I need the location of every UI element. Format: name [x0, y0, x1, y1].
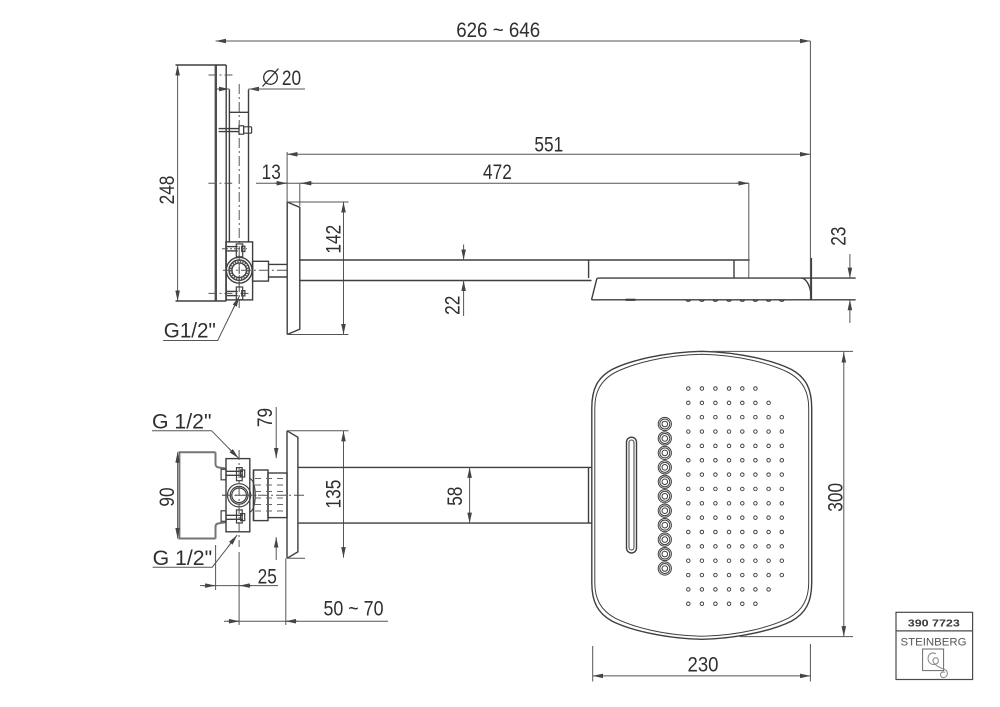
ext line escutcheon top: [287, 201, 348, 203]
svg-text:90: 90: [156, 487, 179, 506]
valve mid circle plan: [230, 486, 248, 504]
leader arrow G1/2 plan top: [229, 448, 239, 458]
bottom bolt nut: [242, 291, 245, 296]
valve thread ring: [230, 261, 248, 279]
svg-text:50 ~ 70: 50 ~ 70: [324, 598, 384, 621]
big nozzle 4 outer: [658, 461, 671, 474]
svg-text:22: 22: [441, 296, 464, 315]
nozzle bump 1: [686, 300, 691, 301]
screw shaft top line: [219, 128, 240, 130]
plan horizontal centerline: [222, 494, 304, 496]
logo box: [896, 612, 973, 679]
dim line d20: [249, 88, 306, 90]
ext line valve center down: [238, 552, 240, 625]
big nozzle 1 outer: [658, 417, 671, 430]
plan bottom bolt shaft2: [226, 518, 243, 520]
dim line 300: [843, 352, 845, 637]
ext line 300 top: [712, 350, 853, 352]
top bolt tab: [236, 244, 242, 257]
valve inner circle plan: [232, 488, 247, 503]
ext line rail edge down: [215, 545, 217, 590]
plan top bolt nut: [241, 470, 245, 477]
leader G1/2 plan bottom: [153, 538, 236, 568]
top bolt shaft line2: [227, 250, 238, 252]
ext line 472 right: [748, 183, 750, 278]
dim arrow d20 left: [217, 88, 229, 90]
cylinder bulge: [250, 478, 256, 513]
nozzle bump 8: [780, 300, 785, 302]
dim arrow 50~70 left: [227, 620, 239, 622]
escutcheon body side: [287, 202, 300, 335]
ext line escutcheon plan bottom: [287, 557, 305, 559]
wall plate top edge: [176, 64, 227, 66]
screw shaft bottom line: [219, 131, 240, 133]
centerline plate hole bottom: [209, 292, 250, 294]
stub centerline: [223, 269, 287, 271]
screw flange: [239, 126, 244, 134]
dim arrow 79 top: [275, 407, 277, 458]
svg-text:58: 58: [444, 487, 467, 506]
ext line 230 left: [592, 646, 594, 682]
thread line 5: [255, 504, 285, 506]
escutcheon face plan: [286, 431, 288, 559]
arm seam left: [588, 260, 590, 278]
cylinder left edge: [253, 470, 255, 521]
top bolt nut: [242, 246, 245, 251]
stub pipe bottom: [269, 276, 288, 278]
nozzle bump 3: [713, 300, 718, 302]
ext line escutcheon plan top: [287, 430, 349, 432]
valve vertical centerline: [238, 255, 240, 287]
dim arrow 22 top: [463, 245, 465, 261]
svg-text:23: 23: [827, 227, 850, 246]
slot outer: [627, 437, 637, 553]
svg-text:25: 25: [258, 566, 277, 589]
valve outer circle: [226, 257, 252, 283]
dim arrow 23 top: [849, 254, 851, 278]
svg-text:135: 135: [323, 480, 346, 509]
plan vertical centerline: [238, 450, 240, 547]
svg-text:472: 472: [483, 161, 512, 184]
arm plan top line: [298, 466, 592, 468]
pipe centerline: [238, 84, 240, 308]
bottom bolt tab: [236, 287, 242, 300]
big nozzle 9 outer: [658, 533, 671, 546]
thread line 1: [255, 478, 285, 480]
ext line wall face down: [285, 558, 287, 625]
plan top bolt shaft2: [226, 474, 243, 476]
thread line 2: [255, 484, 285, 486]
svg-text:G1/2": G1/2": [164, 319, 216, 342]
pipe left edge: [228, 90, 230, 242]
dim arrow 50~70 right: [286, 620, 298, 622]
centerline plate hole top: [209, 74, 233, 76]
dim line 230: [593, 675, 811, 677]
nozzle bump 2: [700, 300, 705, 302]
svg-text:230: 230: [688, 653, 719, 676]
head right corner arc: [801, 278, 811, 300]
dim line 13-472: [256, 182, 749, 184]
big nozzle 6 outer: [658, 490, 671, 503]
ext line 472 left: [299, 183, 301, 206]
thread line 3: [255, 491, 285, 493]
big nozzle 3 outer: [658, 446, 671, 459]
wall plate left edge: [215, 65, 217, 301]
plan bottom bolt shaft1: [226, 514, 243, 516]
logo box divider: [896, 630, 973, 632]
dim arrow 25 left: [203, 585, 216, 587]
leader arrow G1/2 plan bottom: [228, 535, 238, 548]
leader G1/2 side: [163, 299, 238, 341]
connector plan: [268, 473, 287, 518]
valve mid circle: [229, 260, 249, 280]
head bottom edge + ext 23: [592, 299, 856, 301]
dim arrow 13-472 shared: [301, 182, 313, 184]
dim line 248: [177, 65, 179, 301]
thread line 4: [255, 497, 285, 499]
big nozzle 7 outer: [658, 504, 671, 517]
big nozzle 11 outer: [658, 562, 671, 575]
valve cross horizontal: [223, 494, 259, 496]
dim line 90: [177, 452, 179, 538]
housing right edge: [810, 258, 812, 300]
shower head outer outline: [592, 351, 812, 639]
ext line 300 bottom: [740, 636, 853, 638]
dim line 626~646: [216, 40, 811, 42]
dim arrow 23 bottom: [849, 300, 851, 323]
leader arrow G1/2 side: [233, 296, 239, 309]
valve block plan: [226, 459, 250, 532]
stub pipe top: [269, 263, 288, 265]
escutcheon body plan: [287, 431, 298, 559]
cylinder plan: [254, 470, 269, 521]
shower head side left slant: [592, 278, 599, 300]
big nozzle 10 outer: [658, 547, 671, 560]
small nozzle grid: [687, 387, 784, 606]
ext line right: [809, 41, 811, 300]
pipe right edge: [248, 90, 250, 242]
ext line 551 left: [286, 152, 288, 202]
plan bottom bolt head: [221, 511, 226, 522]
big nozzle 5 outer: [658, 475, 671, 488]
plan top bolt head: [221, 469, 226, 480]
thread line 6: [255, 510, 285, 512]
rail outline plan: [179, 452, 215, 538]
ext line 230 right: [809, 644, 811, 682]
ext line escutcheon bottom: [287, 334, 348, 336]
nozzle bump 5: [740, 300, 745, 302]
dim arrow 22 bottom: [463, 281, 465, 317]
plan bottom bolt tab: [237, 510, 243, 523]
arm seam right: [733, 260, 735, 278]
big nozzle 2 outer: [658, 432, 671, 445]
dim line 58: [469, 467, 471, 523]
svg-text:G 1/2": G 1/2": [152, 410, 212, 433]
svg-text:20: 20: [282, 67, 301, 90]
bottom bolt shaft line2: [227, 295, 238, 297]
nozzle bump 4: [727, 300, 732, 302]
arm top line: [300, 259, 750, 261]
slot inner: [629, 440, 634, 550]
shower head inner outline: [595, 354, 809, 636]
bottom bolt shaft line1: [227, 290, 238, 292]
svg-text:390 7723: 390 7723: [908, 618, 960, 629]
dim line 551: [287, 153, 810, 155]
plan bottom bolt nut: [241, 514, 245, 521]
plan top bolt shaft1: [226, 470, 243, 472]
top bolt shaft line1: [227, 246, 238, 248]
plan top bolt tab: [237, 468, 243, 481]
centerline plate hole mid: [208, 182, 232, 184]
logo emblem square: [923, 649, 944, 671]
connector block side: [253, 261, 269, 281]
svg-text:300: 300: [825, 483, 848, 512]
screw head: [244, 127, 252, 133]
svg-text:248: 248: [156, 176, 179, 205]
dim arrow 79 bottom: [275, 537, 277, 560]
leader G1/2 plan top: [152, 431, 237, 457]
top bolt centerline: [222, 248, 247, 250]
diameter symbol: [264, 71, 278, 85]
dim arrow 25 right: [239, 585, 252, 587]
svg-text:551: 551: [534, 133, 563, 156]
arm bottom line: [300, 280, 592, 282]
dim line 25: [200, 585, 278, 587]
dim line 50~70: [224, 620, 388, 622]
nozzle bump 7: [766, 300, 771, 302]
slot nozzle side: [626, 299, 636, 301]
dim arrow 472 right: [737, 182, 749, 184]
escutcheon face side: [286, 202, 288, 335]
rail step top: [216, 452, 227, 468]
dim arrow 13 left: [275, 182, 287, 184]
svg-text:STEINBERG: STEINBERG: [901, 636, 967, 648]
svg-text:13: 13: [262, 161, 281, 184]
svg-text:626 ~ 646: 626 ~ 646: [456, 19, 540, 42]
wall plate bottom edge: [176, 300, 227, 302]
logo emblem squiggle: [928, 653, 947, 678]
big nozzle 8 outer: [658, 519, 671, 532]
arm plan bottom line: [298, 522, 592, 524]
wall plate right edge: [225, 65, 227, 301]
rail step bottom: [216, 522, 227, 538]
dim arrow d20 right: [249, 88, 262, 90]
dim line 135: [343, 431, 345, 558]
valve outer circle plan: [228, 484, 251, 507]
svg-text:79: 79: [254, 408, 277, 427]
arm plan seam: [588, 467, 590, 523]
svg-text:142: 142: [323, 225, 346, 254]
nozzle bump 6: [753, 300, 758, 302]
valve inner circle: [232, 263, 247, 278]
pipe joint: [229, 111, 248, 113]
valve block side view: [226, 242, 253, 300]
dim line 142: [343, 202, 345, 335]
head top edge + ext 23: [599, 277, 856, 279]
